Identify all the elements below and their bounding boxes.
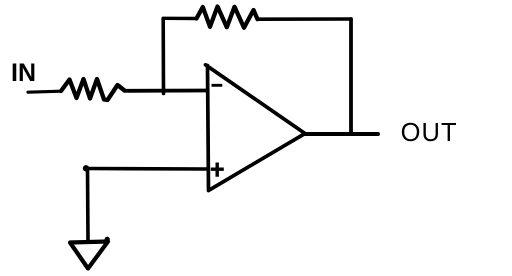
wire to ground vertical [86,169,90,242]
wire non-inverting input horizontal [87,167,208,171]
wire feedback top right [258,17,352,21]
svg-text:IN: IN [11,59,36,87]
wire resistor to inverting input [125,89,208,93]
op-amp non-inverting pin plus sign [211,163,224,177]
node inverting junction [161,19,165,94]
wire feedback right vertical [349,19,353,134]
wire feedback top left [163,17,196,21]
svg-text:OUT: OUT [401,119,458,147]
resistor R1 (input) [61,79,125,100]
op-amp U1 [206,65,306,191]
ground [70,242,108,269]
node corner dot [83,165,89,171]
resistor R2 (feedback) [197,7,258,28]
op-amp inverting pin minus sign [212,84,223,87]
wire IN lead [28,91,61,92]
wire output [305,132,378,136]
ground pen blob [105,237,110,242]
